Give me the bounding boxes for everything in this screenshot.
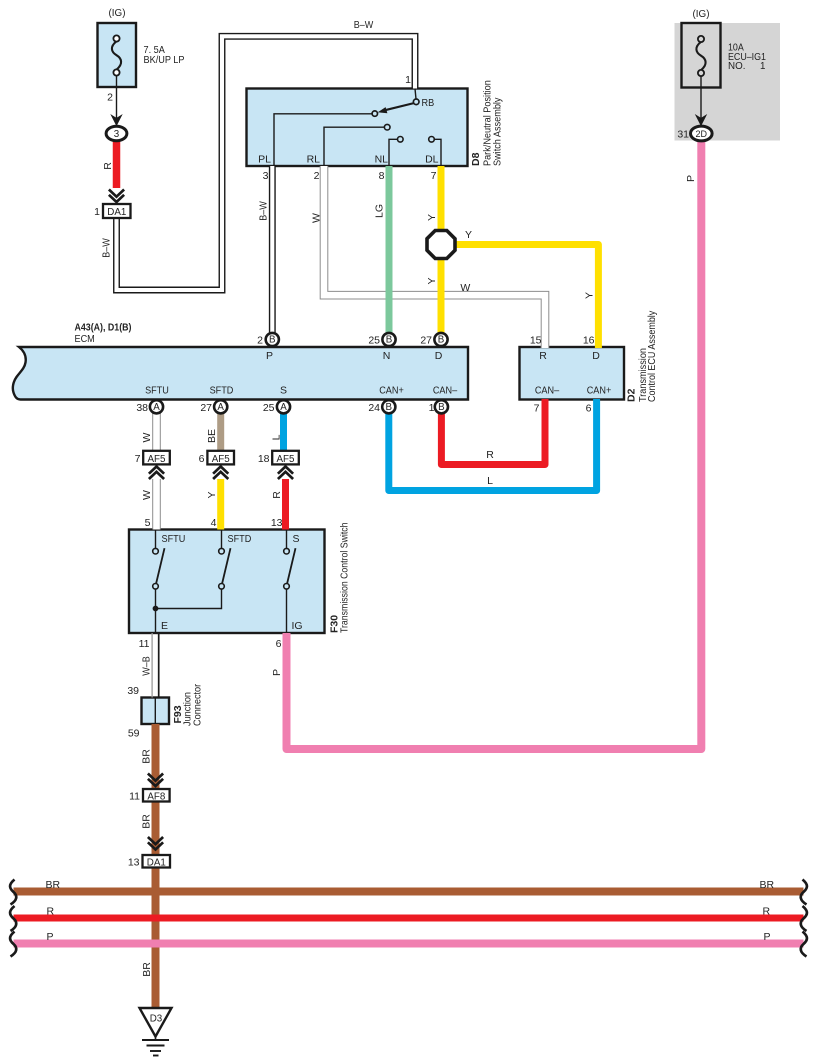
- svg-text:R: R: [486, 449, 494, 461]
- svg-text:CAN–: CAN–: [433, 385, 457, 397]
- svg-text:1: 1: [94, 206, 100, 218]
- wire: fuse ECU-IG1 pin 31 to connector 2D: [700, 77, 702, 127]
- chevrons below AF5 no.6: [213, 467, 228, 480]
- svg-text:2: 2: [257, 335, 263, 347]
- double chevron into AF8: [148, 774, 163, 787]
- F30 switch SFTU: [153, 530, 165, 590]
- svg-text:CAN–: CAN–: [535, 385, 559, 397]
- svg-text:39: 39: [127, 685, 139, 697]
- svg-text:1: 1: [405, 74, 411, 86]
- svg-text:25: 25: [368, 335, 380, 347]
- ground D3: [140, 1008, 172, 1056]
- svg-text:B: B: [386, 402, 393, 413]
- svg-text:L: L: [487, 475, 493, 487]
- svg-text:W: W: [141, 432, 153, 442]
- svg-text:R: R: [102, 162, 114, 170]
- wire BE: ECM pin 27 A to AF5: [217, 410, 224, 451]
- fuse 7.5A BK/UP LP (IG): [98, 23, 137, 87]
- svg-text:BR: BR: [141, 962, 153, 977]
- svg-text:AF8: AF8: [147, 791, 166, 802]
- svg-text:18: 18: [258, 453, 270, 465]
- svg-text:7: 7: [534, 403, 540, 415]
- svg-text:NO.: NO.: [728, 61, 745, 72]
- svg-text:W: W: [460, 282, 470, 294]
- svg-text:BR: BR: [760, 879, 775, 891]
- junction connector F93 box: [142, 698, 170, 725]
- svg-text:AF5: AF5: [148, 454, 167, 465]
- svg-text:P: P: [685, 175, 697, 182]
- svg-text:Connector: Connector: [192, 683, 204, 726]
- bus wire BR (brown): [14, 888, 804, 896]
- svg-text:ECM: ECM: [75, 333, 95, 345]
- wire L: ECM pin CAN+ 24 B to D2 pin CAN+ 6: [389, 399, 597, 491]
- svg-text:RL: RL: [307, 154, 321, 166]
- svg-text:L: L: [271, 434, 283, 440]
- brace left of R bus: [10, 906, 16, 931]
- svg-text:R: R: [539, 350, 547, 362]
- svg-text:6: 6: [586, 403, 592, 415]
- wire P: connector 2D down, left, up to F30 pin IG 6 (pink): [287, 141, 702, 749]
- svg-text:SFTD: SFTD: [210, 385, 234, 397]
- wire R: connector 3 to DA1 (red): [113, 140, 121, 188]
- svg-text:SFTU: SFTU: [162, 533, 186, 545]
- svg-text:P: P: [266, 350, 273, 362]
- brace right of BR bus: [801, 880, 807, 905]
- svg-text:(IG): (IG): [109, 7, 126, 19]
- double chevron into DA1: [109, 190, 124, 203]
- svg-text:1: 1: [760, 61, 765, 72]
- wire Y: D8 pin DL 7 to octagon joint: [438, 166, 445, 232]
- svg-text:B–W: B–W: [101, 238, 113, 258]
- connector AF5 no.6: [207, 451, 234, 465]
- svg-text:1: 1: [429, 402, 435, 414]
- svg-text:3: 3: [114, 129, 120, 140]
- svg-text:6: 6: [276, 638, 282, 650]
- svg-text:B–W: B–W: [258, 201, 270, 221]
- connector AF5 no.18: [272, 451, 299, 465]
- svg-text:Control ECU Assembly: Control ECU Assembly: [646, 310, 658, 402]
- svg-text:R: R: [47, 906, 55, 918]
- D8 RL contact: [324, 124, 390, 166]
- Transmission Control ECU Assembly D2 box: [520, 347, 625, 400]
- connector AF8: [143, 789, 170, 802]
- svg-text:38: 38: [136, 402, 148, 414]
- svg-text:Y: Y: [465, 229, 472, 241]
- svg-text:AF5: AF5: [277, 454, 296, 465]
- D8 RB riser to pin 1: [415, 89, 416, 100]
- svg-text:BR: BR: [141, 749, 153, 764]
- chevrons below AF5 no.18: [278, 467, 293, 480]
- svg-text:Y: Y: [426, 277, 438, 284]
- svg-text:SFTU: SFTU: [145, 385, 169, 397]
- svg-text:AF5: AF5: [212, 454, 231, 465]
- shaded region (other-system background): [675, 23, 781, 141]
- Park/Neutral Position Switch Assembly D8 box: [247, 89, 468, 167]
- svg-text:27: 27: [200, 402, 212, 414]
- svg-text:DA1: DA1: [147, 857, 166, 868]
- svg-text:P: P: [47, 931, 54, 943]
- ECM pin 25 B: [382, 333, 395, 346]
- svg-text:N: N: [383, 350, 391, 362]
- brace right of R bus: [801, 906, 807, 931]
- svg-text:B–W: B–W: [354, 19, 374, 31]
- wire W: D8 pin RL 2 to D2 pin R 15: [324, 166, 545, 348]
- svg-text:5: 5: [145, 517, 151, 529]
- double chevron into lower DA1: [148, 837, 163, 850]
- arrow into connector 3: [110, 114, 122, 126]
- svg-text:7: 7: [431, 170, 437, 182]
- svg-text:D: D: [435, 350, 443, 362]
- D8 PL contact line: [274, 114, 372, 166]
- chevrons below AF5 no.7: [149, 467, 164, 480]
- svg-text:2D: 2D: [696, 129, 708, 139]
- svg-text:LG: LG: [374, 204, 386, 218]
- wire BR: F93 to ground D3 (brown): [152, 724, 160, 1008]
- svg-text:S: S: [280, 385, 287, 397]
- F30 junction dot: [153, 606, 159, 612]
- svg-text:D2: D2: [625, 388, 637, 402]
- svg-text:(IG): (IG): [693, 8, 710, 20]
- svg-text:D: D: [592, 350, 600, 362]
- connector 3 (oval): [106, 126, 127, 140]
- ECM pin 38 A: [150, 400, 163, 413]
- svg-text:A: A: [153, 402, 160, 413]
- svg-text:3: 3: [263, 170, 269, 182]
- svg-text:7: 7: [135, 453, 141, 465]
- svg-text:A: A: [217, 402, 224, 413]
- svg-text:DL: DL: [425, 154, 439, 166]
- svg-text:15: 15: [530, 335, 542, 347]
- wire B-W: D8 pin PL 3 to ECM pin 2 B: [269, 166, 276, 336]
- svg-text:R: R: [271, 491, 283, 499]
- ECM pin 25 A: [277, 400, 290, 413]
- svg-text:Y: Y: [584, 292, 596, 299]
- svg-text:PL: PL: [258, 154, 271, 166]
- svg-text:RB: RB: [422, 97, 435, 109]
- D8 internal switch RB contact: [372, 99, 419, 116]
- svg-text:24: 24: [368, 402, 380, 414]
- fuse 10A ECU-IG1 NO.1 (IG): [682, 23, 721, 88]
- wire: fuse BK/UP LP pin 2 to connector 3: [116, 76, 118, 126]
- svg-text:11: 11: [139, 638, 150, 650]
- wire W: ECM pin 38 A to AF5: [152, 410, 161, 451]
- ECM pin 27 B: [434, 333, 447, 346]
- bus wire P (pink): [14, 940, 804, 948]
- svg-text:CAN+: CAN+: [587, 385, 612, 397]
- svg-text:CAN+: CAN+: [379, 385, 404, 397]
- octagon joint connector: [427, 231, 455, 259]
- svg-text:Y: Y: [206, 491, 218, 498]
- svg-text:P: P: [271, 669, 283, 676]
- svg-text:BR: BR: [141, 814, 153, 829]
- D8 NL contact: [389, 137, 403, 167]
- svg-text:E: E: [161, 620, 168, 632]
- svg-text:8: 8: [379, 170, 385, 182]
- F30 switch S: [284, 530, 296, 590]
- svg-text:B: B: [438, 402, 445, 413]
- wire Y: octagon joint to ECM pin 27 B: [438, 257, 445, 336]
- ECM pin 24 B: [382, 400, 395, 413]
- svg-text:31: 31: [677, 129, 689, 141]
- wire W: AF5 to F30 pin SFTU 5: [152, 479, 161, 530]
- svg-text:A43(A), D1(B): A43(A), D1(B): [75, 323, 132, 334]
- svg-text:B: B: [269, 335, 276, 346]
- wire LG: D8 pin NL 8 to ECM pin 25 B: [386, 166, 393, 336]
- svg-text:A: A: [280, 402, 287, 413]
- connector AF5 no.7: [143, 451, 170, 465]
- svg-text:11: 11: [129, 791, 140, 803]
- svg-text:13: 13: [271, 517, 283, 529]
- svg-text:W: W: [141, 490, 153, 500]
- connector DA1 (bottom): [143, 855, 171, 868]
- svg-text:4: 4: [211, 517, 217, 529]
- wire W-B: F30 pin E 11 to junction connector F93: [152, 633, 159, 698]
- arrow into connector 2D: [695, 114, 707, 126]
- F30 internal wire to IG pin: [286, 589, 288, 633]
- brace left of BR bus: [10, 880, 16, 905]
- ECM pin 27 A: [214, 400, 227, 413]
- svg-text:59: 59: [128, 728, 140, 740]
- brace left of P bus: [10, 932, 16, 957]
- svg-text:W–B: W–B: [141, 656, 153, 676]
- svg-text:2: 2: [107, 92, 113, 104]
- svg-text:13: 13: [128, 857, 140, 869]
- svg-text:BK/UP LP: BK/UP LP: [144, 54, 185, 66]
- svg-text:IG: IG: [292, 620, 303, 632]
- svg-text:B: B: [386, 335, 393, 346]
- wire R: ECM pin CAN- 1 B to D2 pin CAN- 7: [441, 399, 545, 465]
- svg-text:16: 16: [583, 335, 595, 347]
- bus wire R (red): [14, 915, 804, 922]
- svg-text:P: P: [764, 931, 771, 943]
- svg-text:W: W: [310, 213, 322, 223]
- wire B-W: DA1 down, across, up and over to D8 pin 1 (RB): [117, 36, 416, 290]
- brace right of P bus: [801, 932, 807, 957]
- D8 DL contact: [429, 137, 441, 167]
- svg-text:R: R: [763, 906, 771, 918]
- svg-text:Switch Assembly: Switch Assembly: [492, 97, 504, 166]
- ECM block A43(A) D1(B): [13, 347, 468, 400]
- svg-text:2: 2: [314, 170, 320, 182]
- svg-text:6: 6: [199, 453, 205, 465]
- svg-text:B: B: [438, 335, 445, 346]
- svg-text:DA1: DA1: [107, 207, 126, 218]
- ECM pin 2 B: [266, 333, 279, 346]
- ECM pin 1 B: [435, 400, 448, 413]
- svg-text:D8: D8: [470, 152, 482, 166]
- wire Y: octagon joint right and down to D2 pin D 16: [454, 245, 598, 349]
- svg-text:Transmission Control Switch: Transmission Control Switch: [339, 522, 351, 633]
- svg-text:BE: BE: [206, 429, 218, 443]
- connector DA1 (top): [103, 204, 131, 218]
- svg-text:SFTD: SFTD: [228, 533, 252, 545]
- wire Y: AF5 to F30 pin SFTD 4: [217, 479, 224, 530]
- Transmission Control Switch F30 box: [129, 530, 325, 634]
- svg-text:NL: NL: [375, 154, 389, 166]
- wire L: ECM pin 25 A to AF5: [280, 410, 287, 451]
- F30 switch SFTD: [219, 530, 231, 590]
- F30 internal wiring to E pin: [156, 589, 222, 633]
- svg-text:Y: Y: [426, 214, 438, 221]
- svg-text:BR: BR: [46, 879, 61, 891]
- svg-text:D3: D3: [150, 1014, 163, 1025]
- svg-text:27: 27: [420, 335, 432, 347]
- connector 2D (oval): [691, 126, 713, 141]
- svg-text:S: S: [293, 533, 300, 545]
- svg-text:25: 25: [263, 402, 275, 414]
- wire R: AF5 to F30 pin S 13: [282, 479, 289, 530]
